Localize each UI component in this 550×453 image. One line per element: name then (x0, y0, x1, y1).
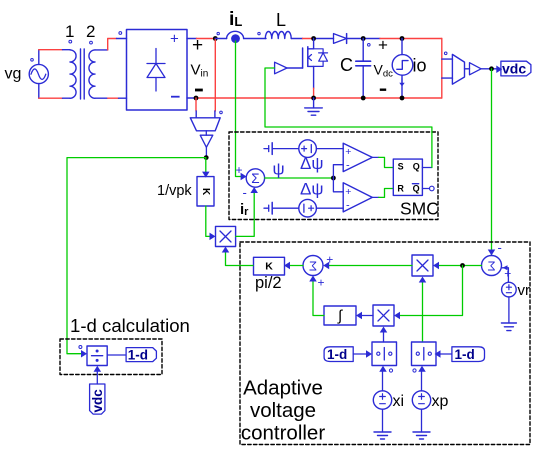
arrowhead into 1/vpk (202, 172, 210, 178)
arrowhead into left divider (366, 350, 372, 358)
wire xi to ground (382, 409, 384, 432)
wire node down to lower multiplier (396, 266, 463, 316)
svg-text:-: - (243, 185, 247, 200)
wire comparator bottom to R (372, 196, 379, 198)
arrowhead into top multiplier bottom (419, 277, 427, 283)
ground mosfet (305, 98, 323, 115)
tag 1-d left (324, 347, 353, 362)
arrowhead into sigma bottom (250, 187, 258, 193)
polarity dot Vin sensor (220, 111, 223, 114)
wire node to 1-d calc (67, 158, 206, 354)
wire summer to node (435, 265, 482, 267)
wire Q output to driver (422, 167, 432, 169)
wire sensor to gain (465, 68, 470, 70)
svg-text:+: + (378, 36, 388, 55)
1-d calculation box (60, 339, 162, 375)
wire psi node up to comparator (333, 165, 343, 178)
wire vr to ground (508, 297, 510, 323)
wire secondary bottom lead (95, 97, 127, 99)
multiplier ir (216, 226, 236, 246)
wire psi (265, 177, 334, 179)
node bridge - (194, 96, 199, 101)
SR flip-flop (393, 159, 422, 195)
svg-text:1-d calculation: 1-d calculation (70, 315, 190, 336)
node psi (331, 176, 336, 181)
dc source delta-psi top (299, 140, 317, 158)
label - Vin (195, 89, 203, 92)
comparator top (343, 143, 372, 171)
wire summer to K (286, 265, 303, 267)
divider block xi (372, 342, 397, 366)
wire driver to gate (287, 67, 303, 69)
wire vdc tag to divider (96, 368, 98, 384)
marker dot divider (79, 346, 82, 349)
wire psi node down to comparator (333, 178, 343, 192)
divider block xp (412, 342, 437, 366)
wire Vin+ sense drop (214, 39, 216, 112)
tag 1-d right (452, 347, 485, 362)
wire vr to summer (501, 268, 508, 283)
svg-text:SMC: SMC (400, 199, 439, 219)
voltage source vg (29, 59, 48, 84)
polarity dot vdc sensor (444, 52, 447, 55)
Qbar end dot (430, 186, 435, 191)
capacitor C (356, 39, 371, 99)
diode bridge rectifier (127, 30, 188, 111)
svg-text:-: - (346, 160, 350, 172)
wire right loop vertical (441, 39, 443, 99)
diode D1 (334, 34, 347, 44)
wire sensor to L (244, 38, 266, 40)
svg-text:2: 2 (86, 22, 95, 41)
ground xi (374, 432, 391, 439)
svg-text:Σ: Σ (309, 259, 317, 274)
wire 1-d tag to left divider (353, 353, 370, 355)
current source io (392, 39, 413, 99)
mosfet Q1 (303, 39, 328, 89)
inductor L (265, 31, 291, 38)
gate driver U2 (275, 62, 287, 74)
svg-text:1: 1 (65, 22, 74, 41)
source xi (373, 391, 391, 409)
wire diode to cap node (347, 38, 380, 40)
svg-text:pi/2: pi/2 (255, 274, 282, 292)
svg-text:+: + (236, 163, 243, 177)
svg-text:vdc: vdc (502, 61, 526, 77)
svg-text:S: S (398, 161, 404, 171)
gain triangle vdc (470, 63, 482, 75)
Qbar output circle (422, 188, 429, 190)
wire K to ir multiplier (226, 249, 254, 266)
gain block K pi/2 (254, 257, 285, 275)
arrowhead into divider (81, 350, 87, 358)
wire vdc feedback down (491, 69, 493, 255)
svg-text:K: K (265, 260, 273, 272)
node cap bottom (361, 96, 366, 101)
arrowhead into integrator (356, 312, 362, 320)
node cap top (361, 36, 366, 41)
svg-text:Q: Q (413, 184, 420, 194)
wire node to 1/vpk (205, 158, 207, 176)
summer right (482, 256, 502, 276)
svg-text:R: R (397, 184, 404, 194)
arrowhead into lower multiplier bottom (380, 327, 388, 333)
arrowhead into lower multiplier right (394, 312, 400, 320)
node vdc (489, 66, 494, 71)
wire L to drain node (291, 38, 302, 40)
svg-text:+: + (318, 276, 325, 290)
wire xp to divider (421, 368, 423, 391)
svg-text:Adaptive: Adaptive (243, 377, 323, 400)
svg-text:voltage: voltage (250, 399, 316, 422)
transformer T1 primary winding (70, 50, 76, 98)
source xp (412, 391, 430, 409)
source vr (502, 282, 517, 297)
wire divider to 1-d tag (107, 354, 126, 356)
wire mosfet source to rail (313, 88, 315, 98)
wire xi divider to lower multiplier (383, 329, 385, 343)
wire 1/vpk to multiplier (206, 206, 214, 236)
arrowhead into K (284, 262, 290, 270)
ground vr (501, 323, 516, 331)
node mosfet source (311, 96, 316, 101)
wire vg top lead (39, 50, 70, 65)
arrowhead into ir multiplier bottom (222, 247, 230, 253)
node mosfet drain (311, 36, 316, 41)
wire cap node to right corner (380, 38, 442, 40)
node bridge + (213, 36, 218, 41)
svg-text:Δψ: Δψ (300, 154, 323, 173)
wire source to comparator top (316, 148, 343, 150)
wire sensor stub bottom (442, 77, 453, 79)
wire rail to iL sensor (215, 38, 226, 40)
gain triangle Vin (200, 135, 213, 147)
multiplier top (412, 255, 433, 276)
wire lower multiplier to integrator (358, 315, 373, 317)
svg-text:+: + (345, 146, 351, 158)
node io bottom (400, 96, 405, 101)
svg-text:1/vpk: 1/vpk (157, 183, 192, 199)
label - Vdc (380, 89, 386, 91)
svg-text:1-d: 1-d (128, 348, 148, 363)
svg-text:+: + (170, 31, 179, 48)
svg-text:-: - (498, 240, 502, 255)
comparator bottom (343, 183, 372, 212)
polarity dot iL (217, 32, 219, 34)
gain block 1/vpk (197, 177, 214, 206)
wire sensor to gain triangle (205, 131, 207, 135)
arrowhead into left summer (323, 262, 329, 270)
wire source to comparator bottom (316, 207, 343, 209)
marker dot right divider (413, 369, 416, 372)
transformer T1 core (81, 49, 85, 99)
svg-text:1-d: 1-d (455, 347, 475, 362)
polarity dot primary (69, 40, 72, 43)
arrowhead into multiplier top right (433, 262, 439, 270)
node io top (400, 36, 405, 41)
svg-text:1-d: 1-d (327, 347, 347, 362)
battery symbol bottom (264, 202, 299, 214)
transformer T1 secondary winding (89, 50, 95, 98)
SMC box (229, 132, 438, 220)
svg-text:-: - (346, 200, 350, 212)
svg-text:ψ: ψ (273, 160, 285, 179)
voltage sensor Vin trapezoid (190, 118, 220, 131)
svg-text:xp: xp (432, 393, 449, 410)
current sensor iL hump (227, 31, 244, 38)
svg-text:controller: controller (241, 422, 325, 445)
node vin rectified (204, 155, 209, 160)
svg-text:Σ: Σ (487, 259, 495, 274)
arrowhead into multiplier left (210, 233, 216, 241)
arrowhead into right summer top (488, 250, 496, 256)
divider block 1-d (87, 346, 107, 366)
polarity dot secondary (90, 41, 93, 44)
voltage sensor vdc (452, 54, 464, 84)
svg-text:+: + (345, 186, 351, 198)
wire gain to vdc tag (481, 68, 501, 70)
wire iL to sigma (236, 41, 245, 177)
ground xp (413, 432, 430, 439)
wire comparator top to S (372, 156, 379, 158)
current sensor iL dot (231, 34, 240, 43)
svg-text:Q: Q (413, 161, 420, 171)
tag vdc vertical (90, 384, 105, 414)
svg-text:vg: vg (5, 66, 22, 83)
tag 1-d output (126, 348, 156, 363)
wire xp divider to top multiplier (422, 279, 424, 343)
multiplier lower (373, 305, 394, 326)
wire integrator to left summer (313, 278, 324, 316)
svg-text:+: + (326, 253, 333, 267)
arrowhead into vdc tag (496, 66, 502, 74)
svg-text:K: K (200, 188, 211, 196)
wire sensor stub top (442, 58, 453, 60)
polarity dot L (258, 32, 260, 34)
label Adaptive voltage controller (241, 377, 325, 445)
tag vdc (501, 61, 531, 77)
node error (460, 263, 465, 268)
wire vg bottom lead (39, 84, 70, 99)
svg-text:io: io (413, 56, 427, 76)
wire multiplier to sigma (236, 189, 255, 236)
wire multiplier to left summer (325, 265, 412, 267)
arrowhead into right divider (435, 350, 441, 358)
wire Vin- sense drop (195, 98, 197, 111)
arrowhead into divider bottom (94, 366, 102, 372)
integrator block (324, 306, 356, 325)
svg-text:vr: vr (518, 282, 531, 299)
summer left (303, 256, 323, 276)
marker dot left divider (389, 369, 392, 372)
svg-text:C: C (340, 55, 353, 75)
wire bottom rail (187, 97, 195, 99)
arrowhead into left divider bottom (379, 366, 387, 372)
arrowhead into left summer bottom (309, 276, 317, 282)
svg-text:Δψ: Δψ (300, 180, 323, 199)
svg-text:L: L (276, 10, 286, 30)
dc source delta-psi bottom (299, 199, 317, 217)
svg-text:Σ: Σ (251, 171, 259, 186)
polarity dot bridge input (119, 32, 122, 35)
wire secondary top lead (95, 39, 127, 50)
wire xp to ground (421, 409, 423, 432)
wire 1-d tag to right divider (437, 353, 452, 355)
summer sigma (246, 169, 264, 187)
Adaptive voltage controller box (240, 242, 530, 445)
svg-text:vdc: vdc (90, 389, 105, 413)
wire bridge + output (187, 38, 197, 40)
wire gain to node (205, 147, 207, 157)
svg-text:xi: xi (393, 393, 405, 410)
arrowhead into sigma left (241, 173, 247, 181)
wire xi to divider (382, 368, 384, 391)
battery symbol top (264, 143, 299, 155)
arrowhead into right divider bottom (418, 366, 426, 372)
